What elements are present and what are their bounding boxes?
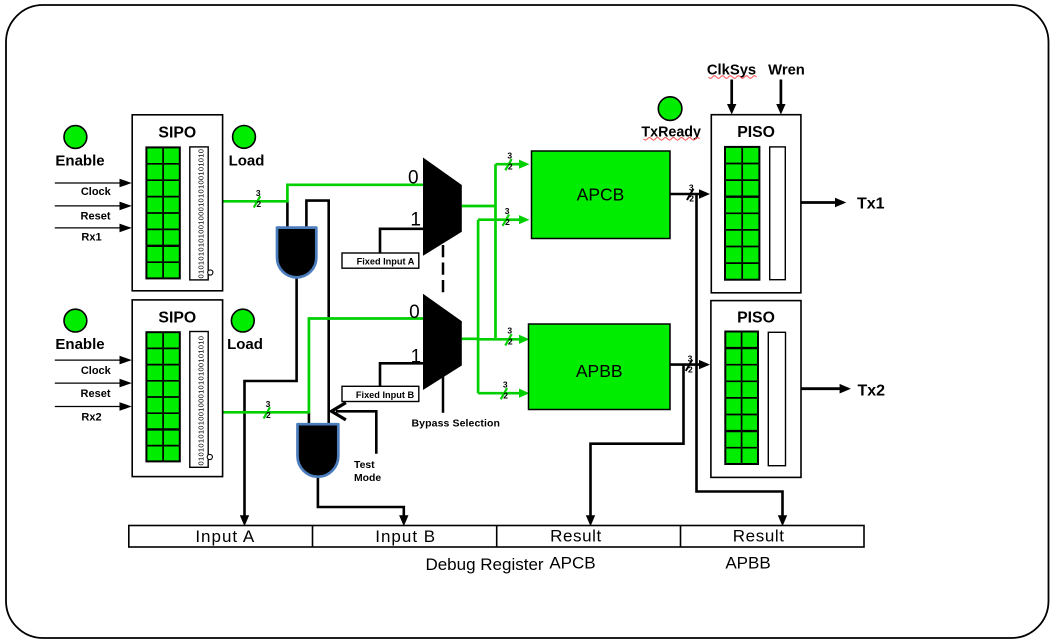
wire: Rx2 input SIPO2 [55,406,124,408]
svg-text:Bypass Selection: Bypass Selection [412,417,501,429]
arrowhead: APBB to PISO2 [699,360,710,369]
svg-text:2: 2 [505,217,510,227]
svg-text:0: 0 [409,302,420,323]
AND gate U1 [277,228,316,278]
wire: APCB input 2 [478,218,523,221]
svg-text:Clock: Clock [81,186,112,198]
svg-text:Wren: Wren [768,63,805,79]
SIPO1 serial strip with bits [190,147,213,280]
squiggle under ClkSys [709,76,757,79]
svg-text:Clock: Clock [81,365,112,377]
indicator TxReady [658,97,682,121]
svg-text:1: 1 [410,209,421,230]
AND gate U2 [298,424,339,477]
wire: Rx1 input SIPO1 [55,227,124,229]
arrowhead: Reset SIPO2 [120,379,132,388]
svg-text:SIPO: SIPO [158,125,196,142]
wire: bottom SIPO tap down into AND U2 [308,412,311,426]
bus slash: SIPO1 output 32 [254,188,262,209]
wire: APCB output branch to Result APBB cell [697,194,783,520]
wire: SIPO2 green output bus to mux M2 input 0 [223,319,423,413]
mux M1 [423,158,462,256]
svg-text:2: 2 [689,194,694,204]
arrowhead: Clock SIPO1 [120,179,132,188]
svg-text:0: 0 [408,167,419,188]
bus slash: APBB output 32 black [686,353,693,374]
arrowhead: Input A down [240,515,249,526]
arrowhead: Result APBB down [778,515,787,526]
svg-text:3: 3 [689,183,694,193]
wire: Clock input SIPO2 [55,359,124,361]
arrowhead: Result APCB down [586,515,595,526]
PISO1 cells grid [725,147,759,280]
svg-text:Enable: Enable [55,336,104,353]
indicator Enable2 [64,309,87,332]
svg-text:Fixed Input A: Fixed Input A [357,257,415,267]
svg-text:Reset: Reset [81,388,111,400]
indicator Enable1 [64,126,87,149]
arrowhead: Reset SIPO1 [120,202,132,211]
indicator Load1 [233,125,256,148]
wire: ClkSys arrow stem [730,80,733,108]
wire: green vertical bus 2 [477,220,480,394]
indicator Load2 [231,309,254,332]
svg-text:Load: Load [229,153,265,170]
svg-text:Test: Test [354,460,375,471]
wire: green vertical bus 1 [494,164,497,339]
svg-text:PISO: PISO [737,310,775,327]
APBB block [529,324,671,410]
wire: Tx2 output [801,387,842,390]
wire: Test Mode stem [336,411,376,454]
arrowhead: Tx1 [835,198,846,208]
wire: APBB input 1 [478,338,523,341]
svg-text:01010101010010001010100101010: 01010101010010001010100101010 [196,149,205,279]
bus slash: APCB output 32 black [687,183,694,204]
svg-text:2: 2 [503,391,508,401]
wire: mux M2 output [462,337,478,340]
svg-text:SIPO: SIPO [158,310,196,327]
PISO2 block [711,301,801,478]
wire: SIPO1 green output bus to mux M1 input 0 [223,185,423,202]
svg-text:2: 2 [508,162,513,172]
wire: Reset input SIPO2 [55,382,124,384]
svg-text:Result: Result [733,527,785,546]
wire: APBB output to PISO2 [670,363,707,366]
svg-text:2: 2 [508,337,513,347]
wire: top AND output to Input A [245,274,297,520]
wire: bottom AND output to Input B [318,474,404,520]
wire: APBB input 2 [478,392,523,395]
PISO1 block [711,115,801,293]
svg-text:3: 3 [688,353,693,363]
svg-text:PISO: PISO [737,124,775,141]
wire: top SIPO tap down into AND U1 [286,201,289,229]
arrowhead: APBB input 1 green [519,335,530,344]
svg-text:Enable: Enable [55,153,104,170]
wire: mux M1 output [462,205,496,208]
arrowhead: APCB input 1 green [519,160,530,169]
wire: APBB output branch to Result APCB cell [591,365,684,520]
wire: Wren arrow stem [780,80,783,108]
svg-text:APCB: APCB [577,185,625,205]
arrowhead: Rx2 SIPO2 [120,402,132,411]
SIPO1 shift cells grid [146,147,179,278]
svg-text:3: 3 [507,326,512,336]
PISO2 serial strip empty [768,332,785,465]
Debug Register table [129,526,864,548]
svg-text:Fixed Input B: Fixed Input B [356,390,415,400]
bus slash: APBB input2 32 [501,380,509,401]
PISO1 serial strip empty [770,147,786,280]
Fixed Input A box [342,253,419,268]
svg-text:Reset: Reset [81,210,111,222]
arrowhead: Input B down [399,515,408,526]
SIPO2 block [132,300,222,477]
arrowhead: APCB to PISO1 [699,189,710,198]
svg-text:01010101010010001010100101010: 01010101010010001010100101010 [196,336,205,466]
svg-text:Load: Load [227,336,263,353]
bus slash: APCB input2 32 [503,206,511,227]
wire: bypass select lower segment [442,362,445,413]
wire: APCB input 1 [496,163,524,166]
svg-text:APCB: APCB [549,554,595,573]
svg-text:APBB: APBB [725,554,770,573]
svg-text:3: 3 [256,188,261,198]
svg-text:3: 3 [507,151,512,161]
arrowhead: Clock SIPO2 [120,356,132,365]
svg-text:3: 3 [266,399,271,409]
svg-text:Rx2: Rx2 [81,411,101,423]
svg-text:Rx1: Rx1 [81,232,101,244]
wire: Clock input SIPO1 [55,182,124,184]
arrowhead: Rx1 SIPO1 [120,224,132,233]
Fixed Input B box [342,386,419,401]
bus slash: APCB input1 32 [505,151,513,172]
SIPO1 block [132,115,222,291]
svg-text:3: 3 [503,380,508,390]
arrowhead: ClkSys down [727,104,736,115]
svg-text:1: 1 [411,347,422,368]
wire: test-mode net (n-shape into AND gates) [306,201,328,425]
arrowhead: Tx2 [840,384,851,394]
wire: mux M1 input-1 from Fixed Input A [380,229,423,253]
svg-text:Tx1: Tx1 [857,195,885,212]
svg-text:2: 2 [266,410,271,420]
wire: mux M2 input-1 from Fixed Input B [380,363,423,386]
squiggle under TxReady [644,138,700,141]
SIPO2 shift cells grid [146,332,179,461]
bus slash: APBB input1 32 [505,326,513,347]
svg-text:Mode: Mode [354,473,381,484]
arrowhead: APBB input 2 green [519,389,530,398]
wire: Tx1 output [801,201,838,204]
arrowhead: Wren down [776,104,785,115]
arrowhead: Test Mode pointing left [332,404,345,420]
svg-text:Tx2: Tx2 [858,383,886,400]
svg-text:2: 2 [688,364,693,374]
svg-text:Input B: Input B [375,527,436,546]
svg-text:APBB: APBB [576,361,623,381]
wire: bypass select dashed segment [442,245,445,293]
bus slash: SIPO2 output 32 [264,399,271,420]
wire: Reset input SIPO1 [55,205,124,207]
PISO2 cells grid [725,332,758,465]
svg-text:Input A: Input A [195,527,255,546]
svg-text:Result: Result [550,527,602,546]
svg-text:2: 2 [256,199,261,209]
svg-text:3: 3 [505,206,510,216]
arrowhead: APCB input 2 green [519,215,530,224]
mux M2 [423,294,462,390]
wire: APCB output to PISO1 [670,193,707,196]
SIPO2 serial strip with bits [190,332,213,468]
svg-text:Debug Register: Debug Register [425,555,543,574]
APCB block [532,151,671,239]
